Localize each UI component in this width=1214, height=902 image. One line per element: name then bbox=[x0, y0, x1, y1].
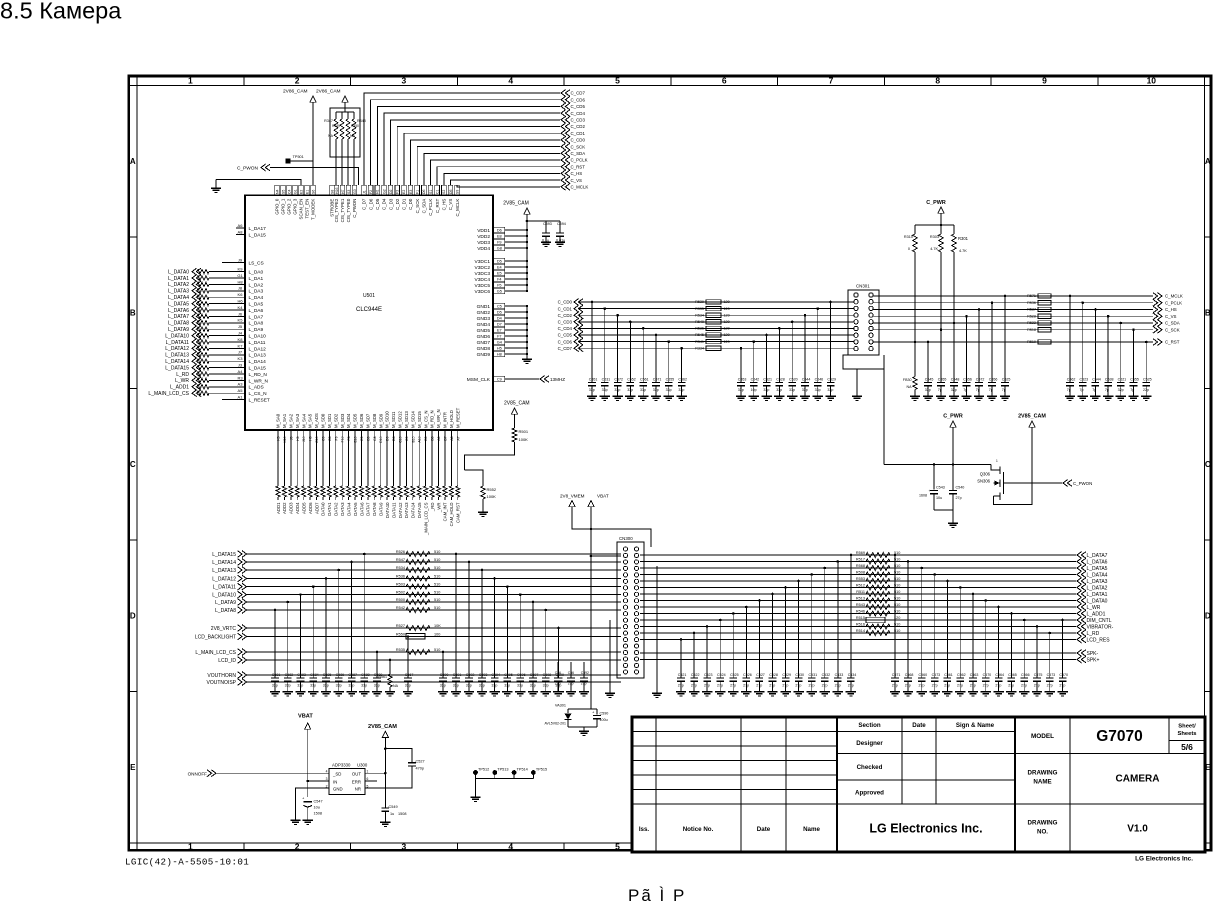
capacitor C545 33p bbox=[923, 341, 934, 401]
svg-text:2V85_CAM: 2V85_CAM bbox=[368, 724, 397, 730]
capacitor C566 27p bbox=[1019, 619, 1030, 696]
capacitor C540 27p bbox=[949, 465, 964, 511]
svg-text:V3DC2: V3DC2 bbox=[475, 265, 491, 271]
net labels LCD bus left bbox=[195, 551, 247, 686]
svg-text:L_CS_N: L_CS_N bbox=[249, 391, 268, 397]
IC U501 top pins group bbox=[275, 185, 460, 222]
wire R501 to CAM pin column bbox=[464, 442, 514, 470]
svg-text:C531: C531 bbox=[602, 378, 611, 382]
power VBAT at CN300 bbox=[588, 494, 609, 507]
resistor R514 510 bbox=[856, 629, 900, 636]
svg-text:J5: J5 bbox=[238, 324, 243, 329]
svg-text:TP513: TP513 bbox=[497, 767, 508, 771]
wire CAM_RST pull-down bbox=[464, 470, 483, 486]
svg-text:ADD6: ADD6 bbox=[308, 502, 313, 514]
capacitor C521 27p bbox=[676, 638, 687, 696]
svg-text:B9: B9 bbox=[424, 436, 428, 440]
svg-text:E4: E4 bbox=[497, 266, 502, 270]
svg-text:R3: R3 bbox=[237, 375, 243, 380]
svg-text:D5: D5 bbox=[449, 189, 453, 194]
svg-text:OUT: OUT bbox=[352, 772, 361, 777]
power C_PWR at switch bbox=[943, 414, 963, 465]
svg-text:3: 3 bbox=[402, 76, 407, 86]
capacitor C556 7p bbox=[961, 315, 972, 401]
svg-text:K10: K10 bbox=[283, 436, 287, 442]
svg-text:C_CD6: C_CD6 bbox=[571, 97, 586, 102]
svg-text:VA301: VA301 bbox=[555, 704, 566, 708]
capacitor C590 33p bbox=[438, 651, 449, 696]
wire R301 down bbox=[953, 252, 955, 323]
svg-text:C594: C594 bbox=[557, 222, 566, 226]
capacitor C560 27p bbox=[917, 567, 928, 696]
svg-text:C_D1: C_D1 bbox=[402, 198, 407, 210]
svg-text:L_DA2: L_DA2 bbox=[249, 282, 264, 288]
svg-text:L_DATA2: L_DATA2 bbox=[168, 282, 189, 288]
svg-text:F1: F1 bbox=[416, 190, 420, 194]
svg-text:A9: A9 bbox=[437, 436, 441, 440]
svg-text:C543: C543 bbox=[936, 486, 945, 490]
svg-text:M_SA2: M_SA2 bbox=[288, 413, 293, 428]
svg-text:MSM_CLK: MSM_CLK bbox=[467, 377, 491, 383]
capacitor C521 32p bbox=[1116, 322, 1127, 401]
svg-text:F5: F5 bbox=[497, 284, 501, 288]
svg-text:C528: C528 bbox=[776, 378, 785, 382]
svg-text:H9: H9 bbox=[296, 436, 300, 440]
svg-text:GPIO_1: GPIO_1 bbox=[281, 198, 286, 214]
svg-text:C553: C553 bbox=[738, 378, 747, 382]
svg-text:S9: S9 bbox=[455, 190, 459, 194]
IC U501 GND pins bbox=[477, 303, 527, 358]
svg-text:R542: R542 bbox=[396, 606, 405, 610]
svg-text:+: + bbox=[592, 710, 595, 715]
resistor R535 510 bbox=[396, 648, 440, 655]
svg-text:M_SD0: M_SD0 bbox=[321, 413, 326, 428]
svg-text:C563: C563 bbox=[970, 673, 979, 677]
svg-text:GND7: GND7 bbox=[477, 340, 491, 346]
svg-text:C587: C587 bbox=[348, 673, 357, 677]
svg-text:MODEL: MODEL bbox=[1031, 733, 1054, 740]
svg-text:C529: C529 bbox=[827, 378, 836, 382]
svg-text:2V8_VRTC: 2V8_VRTC bbox=[211, 626, 237, 632]
svg-text:DATA15: DATA15 bbox=[417, 502, 422, 518]
svg-text:1u: 1u bbox=[390, 812, 394, 816]
svg-text:M_SD1: M_SD1 bbox=[327, 413, 332, 428]
capacitor C544 7p bbox=[1090, 308, 1101, 400]
wire VBAT branch to VA301 bbox=[568, 556, 591, 709]
capacitor C567 33p bbox=[403, 635, 414, 696]
capacitor C543 10u bbox=[919, 465, 945, 511]
ruler row letters bbox=[130, 157, 1211, 772]
svg-text:D: D bbox=[130, 612, 136, 621]
svg-text:G2: G2 bbox=[382, 189, 386, 194]
svg-text:A3: A3 bbox=[238, 382, 244, 387]
capacitor C562 27p small bbox=[566, 662, 576, 696]
svg-text:4.7K: 4.7K bbox=[930, 247, 938, 251]
svg-text:TP501: TP501 bbox=[293, 155, 304, 159]
svg-text:C_D3: C_D3 bbox=[388, 198, 393, 210]
testpoints TP512-TP515 bbox=[473, 767, 547, 797]
capacitor C523 27p bbox=[702, 625, 713, 696]
drawing border frame bbox=[129, 76, 1211, 850]
svg-text:C531: C531 bbox=[809, 673, 818, 677]
svg-text:DATA3: DATA3 bbox=[340, 502, 345, 516]
svg-text:L_DA7: L_DA7 bbox=[249, 314, 264, 320]
svg-text:C_VS: C_VS bbox=[448, 199, 453, 211]
svg-text:3: 3 bbox=[402, 842, 407, 852]
net ONNOFF bbox=[188, 770, 329, 777]
svg-text:C_HS: C_HS bbox=[442, 199, 447, 211]
svg-text:L_DATA12: L_DATA12 bbox=[165, 346, 189, 352]
svg-text:R528: R528 bbox=[1027, 314, 1036, 318]
svg-text:M_SD8: M_SD8 bbox=[372, 413, 377, 428]
transistor Q306 SN306 bbox=[977, 459, 1003, 500]
svg-text:L_ADD1: L_ADD1 bbox=[1087, 611, 1106, 617]
svg-text:C: C bbox=[130, 460, 136, 469]
svg-text:C_CD1: C_CD1 bbox=[558, 306, 573, 311]
svg-text:D6: D6 bbox=[497, 229, 502, 233]
wire R303 down bbox=[940, 252, 942, 330]
capacitor C593 0.1u bbox=[541, 221, 552, 247]
svg-text:120: 120 bbox=[724, 327, 730, 331]
svg-text:VOUTHORN: VOUTHORN bbox=[207, 673, 236, 679]
svg-text:L_DATA12: L_DATA12 bbox=[212, 576, 236, 582]
svg-text:F4: F4 bbox=[497, 278, 501, 282]
svg-text:L_DA14: L_DA14 bbox=[249, 359, 267, 365]
resistor R516 510 bbox=[856, 622, 900, 629]
svg-text:C542: C542 bbox=[751, 378, 760, 382]
svg-text:V3DC3: V3DC3 bbox=[475, 271, 491, 277]
ferrite FB301 NA bbox=[903, 377, 920, 401]
capacitor C551 33p bbox=[587, 301, 598, 401]
svg-text:E5: E5 bbox=[497, 272, 502, 276]
capacitor C546 33p bbox=[813, 307, 824, 400]
capacitor C594 33p bbox=[489, 577, 500, 696]
power VBAT at regulator bbox=[298, 714, 313, 730]
svg-text:C584: C584 bbox=[310, 673, 319, 677]
svg-text:R508: R508 bbox=[856, 570, 865, 574]
svg-text:L_DATA14: L_DATA14 bbox=[165, 359, 189, 365]
svg-text:B8: B8 bbox=[431, 436, 435, 440]
svg-text:8: 8 bbox=[935, 76, 940, 86]
svg-text:10u: 10u bbox=[314, 805, 320, 809]
resistor array R539-R334 120 bbox=[695, 300, 729, 351]
resistor pack R571-R518 bbox=[1027, 294, 1051, 332]
capacitor C524 27p bbox=[715, 619, 726, 696]
svg-text:C10: C10 bbox=[398, 436, 402, 442]
svg-text:SN306: SN306 bbox=[977, 479, 990, 484]
svg-text:DATA13: DATA13 bbox=[404, 502, 409, 518]
regulator U300 ADP3330 bbox=[326, 762, 369, 794]
capacitor C575 27p bbox=[1032, 625, 1043, 696]
svg-text:B9: B9 bbox=[366, 436, 370, 440]
svg-text:N4: N4 bbox=[275, 189, 279, 194]
svg-text:1: 1 bbox=[188, 76, 193, 86]
svg-text:A1: A1 bbox=[238, 395, 244, 400]
svg-text:C_CD3: C_CD3 bbox=[571, 118, 586, 123]
wire arrow1 down bbox=[312, 102, 314, 161]
capacitor C525 22p bbox=[1141, 341, 1152, 401]
svg-text:GND4: GND4 bbox=[477, 322, 491, 328]
svg-text:510: 510 bbox=[434, 550, 440, 554]
capacitor C556 7p bbox=[987, 301, 998, 400]
svg-text:C_CD2: C_CD2 bbox=[558, 313, 573, 318]
svg-text:R535: R535 bbox=[396, 648, 405, 652]
svg-text:M_SD9: M_SD9 bbox=[378, 413, 383, 428]
svg-text:L_DATA9: L_DATA9 bbox=[215, 600, 236, 606]
svg-text:C586: C586 bbox=[336, 673, 345, 677]
svg-text:DATA6: DATA6 bbox=[359, 502, 364, 516]
svg-text:C591: C591 bbox=[453, 673, 462, 677]
svg-text:L_DA0: L_DA0 bbox=[249, 270, 264, 276]
svg-text:DATA14: DATA14 bbox=[411, 502, 416, 518]
wire CN301 shield to ground bbox=[856, 369, 858, 396]
svg-text:R515: R515 bbox=[856, 616, 865, 620]
svg-text:LG Electronics Inc.: LG Electronics Inc. bbox=[1135, 856, 1193, 863]
svg-text:120: 120 bbox=[724, 307, 730, 311]
svg-text:8.5 Камера: 8.5 Камера bbox=[0, 0, 122, 24]
svg-text:E7: E7 bbox=[497, 329, 502, 333]
capacitor C529 33p bbox=[825, 301, 836, 401]
svg-text:R517: R517 bbox=[856, 557, 865, 561]
svg-text:C551: C551 bbox=[589, 378, 598, 382]
testpoint TP501 bbox=[286, 155, 304, 164]
svg-text:S3: S3 bbox=[347, 190, 351, 194]
capacitor C583 33p bbox=[295, 593, 306, 696]
svg-text:V3DC6: V3DC6 bbox=[475, 289, 491, 295]
svg-text:R546: R546 bbox=[856, 609, 865, 613]
svg-text:L_RD: L_RD bbox=[176, 372, 189, 378]
svg-text:GND9: GND9 bbox=[477, 352, 491, 358]
capacitor C555 33p bbox=[664, 340, 675, 400]
svg-text:C_CD0: C_CD0 bbox=[558, 300, 573, 305]
svg-text:13MHZ: 13MHZ bbox=[550, 377, 565, 382]
capacitor C553 33p bbox=[736, 347, 747, 401]
svg-text:F10: F10 bbox=[341, 436, 345, 442]
capacitor C595 33p bbox=[502, 585, 513, 696]
svg-text:C593: C593 bbox=[479, 673, 488, 677]
svg-text:1: 1 bbox=[188, 842, 193, 852]
svg-text:CN301: CN301 bbox=[856, 284, 870, 289]
svg-text:R303: R303 bbox=[930, 235, 939, 239]
svg-text:Section: Section bbox=[858, 722, 881, 729]
svg-text:L_DA12: L_DA12 bbox=[249, 346, 267, 352]
svg-text:C568: C568 bbox=[905, 673, 914, 677]
wire VDD rail bbox=[526, 214, 528, 291]
svg-text:+: + bbox=[302, 796, 305, 801]
svg-text:R334: R334 bbox=[695, 346, 704, 350]
resistor column R526-R542 510 bbox=[396, 550, 440, 613]
svg-text:C4: C4 bbox=[287, 189, 291, 194]
svg-text:_SD: _SD bbox=[332, 772, 341, 777]
svg-text:L_DA15: L_DA15 bbox=[249, 366, 267, 372]
svg-text:CLC944E: CLC944E bbox=[356, 307, 382, 313]
net labels camera control right bbox=[1153, 293, 1183, 346]
capacitor C526 27p bbox=[741, 606, 752, 696]
svg-text:D8: D8 bbox=[392, 436, 396, 440]
ground VA301 bbox=[579, 730, 589, 732]
svg-text:K3: K3 bbox=[238, 356, 244, 361]
svg-text:SPK-: SPK- bbox=[1087, 651, 1099, 657]
wire CN301 pin to C_PWR node bbox=[883, 369, 885, 465]
svg-text:M_SD12: M_SD12 bbox=[398, 411, 403, 428]
svg-text:C571: C571 bbox=[653, 378, 662, 382]
resistor column right R569-R514 bbox=[856, 551, 900, 616]
svg-text:C533: C533 bbox=[835, 673, 844, 677]
capacitor C587 33p bbox=[346, 561, 357, 696]
wire C_CD bus to CN301 bbox=[579, 302, 853, 348]
svg-text:C556: C556 bbox=[989, 378, 998, 382]
svg-text:F3: F3 bbox=[396, 190, 400, 194]
svg-text:J9: J9 bbox=[289, 436, 293, 440]
svg-text:C555: C555 bbox=[666, 378, 675, 382]
svg-text:C581: C581 bbox=[272, 673, 281, 677]
svg-text:L_DATA5: L_DATA5 bbox=[168, 301, 189, 307]
capacitor C570 27p bbox=[1057, 619, 1068, 696]
svg-text:C588: C588 bbox=[361, 673, 370, 677]
svg-text:5: 5 bbox=[615, 842, 620, 852]
svg-text:C552: C552 bbox=[627, 378, 636, 382]
svg-text:NA: NA bbox=[393, 684, 399, 688]
svg-text:9: 9 bbox=[1042, 76, 1047, 86]
svg-text:C534: C534 bbox=[848, 673, 857, 677]
ground IC GND pins bbox=[522, 358, 532, 360]
svg-text:R552: R552 bbox=[487, 487, 497, 492]
ground CN301 shield bbox=[852, 395, 862, 397]
capacitor C527 27p bbox=[754, 599, 765, 696]
svg-text:H16: H16 bbox=[335, 188, 339, 194]
resistor pack box R347-R350 bbox=[324, 108, 366, 185]
svg-text:C_RST: C_RST bbox=[571, 164, 586, 169]
svg-text:C_PWR: C_PWR bbox=[943, 414, 963, 420]
capacitor C525 27p bbox=[728, 612, 739, 696]
svg-text:L_DA1: L_DA1 bbox=[249, 276, 264, 282]
svg-text:H1: H1 bbox=[376, 189, 380, 194]
svg-text:C521: C521 bbox=[678, 673, 687, 677]
svg-text:L_DATA9: L_DATA9 bbox=[168, 327, 189, 333]
svg-text:J1: J1 bbox=[362, 190, 366, 194]
svg-text:Q306: Q306 bbox=[980, 472, 991, 477]
svg-text:Sheets: Sheets bbox=[1177, 731, 1196, 737]
ground C540 bbox=[948, 522, 958, 524]
capacitor C572 33p bbox=[612, 314, 623, 401]
svg-text:M_SD10: M_SD10 bbox=[385, 411, 390, 428]
svg-text:E9: E9 bbox=[360, 436, 364, 440]
svg-text:R553: R553 bbox=[856, 577, 865, 581]
svg-text:510: 510 bbox=[434, 598, 440, 602]
svg-text:R541: R541 bbox=[695, 340, 704, 344]
capacitor C562 7p bbox=[1065, 295, 1076, 401]
svg-text:GND6: GND6 bbox=[477, 334, 491, 340]
svg-text:C_SCK: C_SCK bbox=[1165, 327, 1180, 332]
svg-text:D4: D4 bbox=[497, 317, 502, 321]
svg-text:GND: GND bbox=[333, 786, 343, 791]
svg-text:C_SDA: C_SDA bbox=[422, 199, 427, 214]
svg-text:2: 2 bbox=[295, 76, 300, 86]
svg-text:CAM_HOLD: CAM_HOLD bbox=[449, 503, 454, 527]
capacitor C523 7p bbox=[1078, 301, 1089, 400]
svg-text:C_D2: C_D2 bbox=[395, 198, 400, 210]
wire LCD bus left to CN300 bbox=[247, 554, 622, 682]
svg-text:E2: E2 bbox=[299, 190, 303, 194]
capacitor C547 10u bbox=[302, 796, 323, 820]
svg-text:C_CD4: C_CD4 bbox=[558, 326, 573, 331]
svg-text:M_SD14: M_SD14 bbox=[410, 411, 415, 428]
svg-text:1508: 1508 bbox=[314, 811, 322, 815]
svg-text:C_VS: C_VS bbox=[1165, 314, 1177, 319]
svg-text:R568: R568 bbox=[856, 564, 865, 568]
svg-text:K3: K3 bbox=[277, 436, 281, 440]
svg-text:C_PWDN: C_PWDN bbox=[352, 199, 357, 218]
svg-text:C_D4: C_D4 bbox=[382, 198, 387, 210]
capacitor C561 27p small bbox=[553, 662, 563, 696]
svg-text:C582: C582 bbox=[285, 673, 294, 677]
svg-text:Pã Ì P: Pã Ì P bbox=[628, 886, 686, 902]
svg-text:_MAIN_LCD_CS: _MAIN_LCD_CS bbox=[423, 502, 428, 536]
title block texts bbox=[639, 722, 1197, 835]
svg-text:M_SD6: M_SD6 bbox=[359, 413, 364, 428]
resistor R310 0 bbox=[904, 225, 917, 252]
op IC U501 CLC944E body bbox=[245, 195, 493, 430]
svg-text:C_CD7: C_CD7 bbox=[558, 346, 573, 351]
svg-text:FB30: FB30 bbox=[903, 378, 912, 382]
svg-text:R526: R526 bbox=[396, 550, 405, 554]
svg-text:R511: R511 bbox=[856, 590, 865, 594]
svg-text:C597: C597 bbox=[530, 673, 539, 677]
wire TP501 to T_MODEK pin bbox=[291, 161, 314, 185]
svg-text:C_RST: C_RST bbox=[1165, 340, 1180, 345]
svg-text:L_WR_N: L_WR_N bbox=[249, 378, 269, 384]
svg-text:C_CD6: C_CD6 bbox=[558, 339, 573, 344]
capacitor C597 33p bbox=[528, 601, 539, 696]
svg-text:C56: C56 bbox=[555, 671, 561, 675]
capacitor C571 27p bbox=[890, 554, 901, 696]
svg-text:AVL5V62-201: AVL5V62-201 bbox=[544, 722, 566, 726]
capacitor C528 27p bbox=[767, 593, 778, 696]
svg-text:ADD3: ADD3 bbox=[289, 502, 294, 514]
svg-text:M_SD13: M_SD13 bbox=[404, 411, 409, 428]
ground regulator bbox=[290, 819, 300, 821]
svg-text:F9: F9 bbox=[497, 241, 501, 245]
svg-text:C_RST: C_RST bbox=[435, 198, 440, 213]
svg-text:M_SA4: M_SA4 bbox=[301, 413, 306, 428]
svg-text:B: B bbox=[130, 309, 136, 318]
svg-text:GPIO_2: GPIO_2 bbox=[287, 198, 292, 214]
svg-text:D5: D5 bbox=[497, 311, 502, 315]
svg-text:A7: A7 bbox=[456, 436, 460, 440]
svg-text:L_DATA0: L_DATA0 bbox=[1087, 598, 1108, 604]
svg-text:A: A bbox=[1205, 157, 1211, 166]
svg-text:C_PCLK: C_PCLK bbox=[571, 158, 588, 163]
svg-text:J4: J4 bbox=[238, 331, 243, 336]
wire IN pin bbox=[308, 780, 329, 782]
svg-text:C8: C8 bbox=[373, 436, 377, 440]
svg-text:C590: C590 bbox=[440, 673, 449, 677]
svg-text:L_DATA1: L_DATA1 bbox=[1087, 592, 1108, 598]
svg-text:R512: R512 bbox=[856, 583, 865, 587]
svg-text:R534: R534 bbox=[396, 566, 405, 570]
capacitor C584 33p bbox=[308, 585, 319, 696]
svg-text:C_D6: C_D6 bbox=[368, 198, 373, 210]
svg-text:L_MAIN_LCD_CS: L_MAIN_LCD_CS bbox=[148, 391, 189, 397]
svg-text:C525: C525 bbox=[1002, 378, 1011, 382]
svg-text:M_WR_N: M_WR_N bbox=[436, 409, 441, 428]
svg-text:510: 510 bbox=[434, 606, 440, 610]
capacitor C544 33p bbox=[800, 314, 811, 401]
svg-text:A5: A5 bbox=[238, 388, 244, 393]
title block frame bbox=[632, 717, 1205, 852]
svg-text:C_HS: C_HS bbox=[1165, 307, 1177, 312]
svg-text:C_CD3: C_CD3 bbox=[558, 320, 573, 325]
